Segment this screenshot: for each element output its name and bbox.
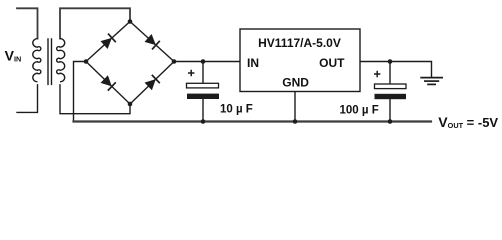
node bridge bottom junction bbox=[128, 102, 133, 107]
node bridge right junction bbox=[172, 59, 177, 64]
wire C1 bottom lead bbox=[202, 99, 204, 121]
wire bridge edge bottom-right bbox=[130, 62, 174, 105]
transformer T1 bbox=[33, 38, 65, 85]
svg-text:10 µ F: 10 µ F bbox=[220, 104, 253, 116]
wire bridge right node to regulator IN bbox=[174, 61, 240, 63]
diode D4 (bottom node to right node) bbox=[145, 75, 160, 90]
node C2 top junction bbox=[388, 59, 393, 64]
diode D1 (left node to top node) bbox=[101, 34, 116, 49]
capacitor C2 100uF bbox=[374, 71, 406, 99]
svg-text:HV1117/A-5.0V: HV1117/A-5.0V bbox=[258, 36, 341, 50]
svg-text:IN: IN bbox=[247, 56, 259, 70]
svg-text:VOUT = -5V: VOUT = -5V bbox=[438, 114, 498, 130]
node bridge top junction bbox=[128, 19, 133, 24]
wire bridge edge left-bottom bbox=[86, 62, 130, 105]
transformer primary winding bbox=[33, 39, 41, 82]
wire secondary bottom lead to bridge bottom node bbox=[60, 85, 130, 114]
wire C2 bottom lead bbox=[389, 99, 391, 121]
wire C1 top lead bbox=[202, 62, 204, 84]
capacitor C1 polarity + mark bbox=[188, 70, 194, 76]
wire primary top lead bbox=[17, 8, 38, 38]
capacitor C2 positive plate bbox=[375, 84, 407, 89]
diode D3 (left node to bottom node) bbox=[101, 75, 116, 90]
capacitor C1 positive plate bbox=[187, 83, 219, 88]
transformer core bbox=[48, 38, 52, 85]
capacitor C2 negative plate bbox=[375, 94, 407, 99]
wire bridge left node to -5V rail bbox=[74, 62, 87, 121]
diode D2 (top node to right node) bbox=[145, 34, 160, 49]
wire regulator OUT to ground bbox=[360, 62, 432, 77]
regulator U1 HV1117/A-5.0V bbox=[240, 29, 360, 92]
ground symbol bbox=[420, 78, 443, 85]
wire primary bottom lead bbox=[17, 85, 38, 113]
diode bridge bbox=[86, 22, 174, 105]
capacitor C1 10uF bbox=[187, 70, 220, 99]
node GND pin junction bbox=[293, 119, 298, 124]
transformer secondary winding bbox=[57, 39, 65, 82]
node C1 bottom junction bbox=[201, 119, 206, 124]
svg-text:GND: GND bbox=[282, 75, 309, 89]
wire bridge edge top-right bbox=[130, 22, 174, 62]
capacitor C2 polarity + mark bbox=[374, 71, 380, 77]
node bridge left junction bbox=[84, 59, 89, 64]
capacitor C1 negative plate bbox=[187, 94, 219, 99]
svg-text:OUT: OUT bbox=[319, 56, 345, 70]
node C1 top junction bbox=[201, 59, 206, 64]
wire C2 top lead bbox=[389, 62, 391, 85]
node C2 bottom junction bbox=[388, 119, 393, 124]
svg-text:100 µ F: 100 µ F bbox=[340, 105, 379, 117]
wire -5V bottom rail bbox=[74, 120, 432, 122]
wire regulator GND pin to rail bbox=[294, 92, 296, 122]
wire bridge edge left-top bbox=[86, 22, 130, 62]
wire secondary top lead to bridge top node bbox=[60, 8, 130, 38]
